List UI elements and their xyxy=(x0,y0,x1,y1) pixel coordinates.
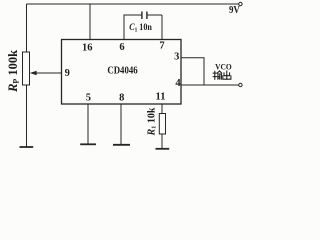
svg-text:C1 10n: C1 10n xyxy=(129,21,152,33)
svg-text:11: 11 xyxy=(156,92,166,103)
svg-text:3: 3 xyxy=(174,51,179,62)
svg-text:7: 7 xyxy=(159,41,164,52)
svg-text:RP 100k: RP 100k xyxy=(6,50,21,93)
svg-text:VCO: VCO xyxy=(215,62,232,72)
svg-text:8: 8 xyxy=(119,93,124,104)
svg-text:5: 5 xyxy=(86,93,91,104)
svg-text:6: 6 xyxy=(119,42,124,53)
svg-text:9: 9 xyxy=(65,68,70,79)
svg-text:9V: 9V xyxy=(229,5,240,17)
svg-text:16: 16 xyxy=(82,43,93,54)
svg-text:R1 10k: R1 10k xyxy=(146,107,157,136)
svg-text:CD4046: CD4046 xyxy=(107,66,138,77)
svg-text:4: 4 xyxy=(175,78,181,89)
